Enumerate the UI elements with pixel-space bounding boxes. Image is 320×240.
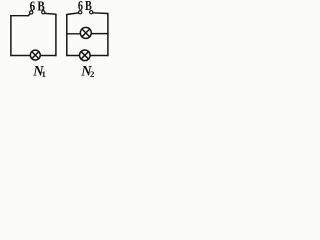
wire top-left circuit 2 xyxy=(67,13,79,15)
wire right side circuit 2 xyxy=(107,14,109,56)
terminal T1 xyxy=(30,11,33,14)
wire bottom-right circuit 1 xyxy=(41,54,56,56)
wire left side circuit 1 xyxy=(10,16,12,56)
wire bottom-left circuit 2 xyxy=(67,55,80,57)
lamp N1 xyxy=(30,50,40,60)
lamp N2a (upper branch) xyxy=(80,27,91,38)
wire right side circuit 1 xyxy=(55,14,57,55)
lamp N2b (lower branch) xyxy=(80,50,91,61)
wire bottom-left circuit 1 xyxy=(11,54,30,56)
svg-text:N1: N1 xyxy=(32,64,46,80)
wire bottom-right circuit 2 xyxy=(90,54,108,56)
terminal T3 xyxy=(79,11,82,14)
terminal T4 xyxy=(90,11,93,14)
wire middle-right circuit 2 (parallel branch) xyxy=(92,33,108,35)
wire middle-left circuit 2 (parallel branch) xyxy=(67,33,80,35)
wire top-right circuit 1 xyxy=(45,12,56,15)
terminal T2 xyxy=(42,11,45,14)
wire top-left circuit 1 xyxy=(11,14,30,16)
svg-text:N2: N2 xyxy=(80,64,95,80)
wire top-right circuit 2 xyxy=(93,12,108,15)
wire left side circuit 2 xyxy=(66,15,68,56)
